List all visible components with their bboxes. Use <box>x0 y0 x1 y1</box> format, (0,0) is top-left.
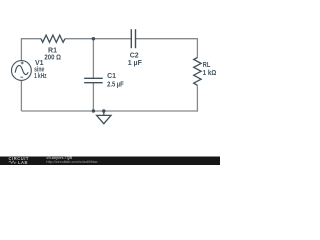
ground <box>97 111 111 124</box>
svg-text:LAB: LAB <box>18 160 28 165</box>
svg-text:R1: R1 <box>48 47 57 54</box>
svg-text:C1: C1 <box>107 73 116 80</box>
svg-text:2.5 µF: 2.5 µF <box>107 82 124 89</box>
resistor RL <box>194 58 201 86</box>
voltage source V1 <box>12 61 32 81</box>
capacitor C1 <box>84 78 103 82</box>
wire: C1 branch top (junction down to C1 top plate) <box>92 39 94 79</box>
svg-text:1 kΩ: 1 kΩ <box>203 70 217 77</box>
svg-text:200 Ω: 200 Ω <box>44 54 61 61</box>
node junction dot (top of C1 branch) <box>92 37 95 40</box>
wire: top rail middle segment (R1 right to C2 left plate) <box>65 38 131 40</box>
wire: bottom rail <box>21 110 197 112</box>
wire: top rail left segment <box>21 38 41 40</box>
wire: C1 branch bottom (C1 bottom plate to bottom rail) <box>92 83 94 111</box>
footer logo CIRCUIT LAB <box>9 156 29 165</box>
svg-text:1 µF: 1 µF <box>128 60 143 67</box>
capacitor C2 <box>131 29 135 48</box>
node junction dot (ground tap on bottom rail) <box>102 109 105 112</box>
wire: right rail top (corner to RL) <box>196 38 198 57</box>
svg-text:RL: RL <box>203 62 211 69</box>
footer watermark bar <box>0 157 220 166</box>
wire: right rail bottom (RL to bottom rail) <box>196 85 198 111</box>
wire: left rail (corner down to V1 top) <box>20 38 22 61</box>
resistor R1 <box>41 35 65 42</box>
svg-text:1 kHz: 1 kHz <box>34 73 47 80</box>
node junction dot (bottom of C1 branch) <box>92 109 95 112</box>
svg-text:http://circuitlab.com/c4sdt9hk: http://circuitlab.com/c4sdt9hkw <box>46 160 97 164</box>
svg-text:C2: C2 <box>130 52 139 59</box>
wire: top rail right segment (C2 right plate to top-right corner) <box>136 38 198 40</box>
wire: left rail (V1 bottom to bottom rail) <box>20 80 22 111</box>
